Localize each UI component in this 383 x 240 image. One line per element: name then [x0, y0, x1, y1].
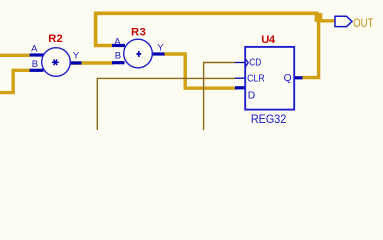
svg-text:U4: U4: [261, 34, 276, 46]
svg-text:CLR: CLR: [247, 73, 265, 84]
svg-text:A: A: [31, 43, 38, 54]
svg-text:D: D: [248, 90, 255, 101]
svg-text:R3: R3: [131, 26, 146, 38]
svg-text:B: B: [32, 59, 38, 70]
svg-text:Y: Y: [73, 50, 80, 61]
svg-text:R2: R2: [48, 33, 63, 45]
junction square: [315, 13, 323, 22]
wire vertical from junction down to U4.Q: [302, 13, 319, 77]
thin wire CD from bottom edge: [204, 63, 235, 132]
register U4 body: [245, 47, 294, 110]
pin stub R2.B: [30, 69, 44, 72]
adder R3 plus: [136, 51, 141, 57]
pin line U4.CD: [235, 62, 245, 64]
svg-text:OUT: OUT: [353, 16, 374, 30]
svg-text:Q: Q: [284, 73, 292, 84]
multiplier R2 asterisk: [52, 60, 59, 66]
svg-text:REG32: REG32: [251, 112, 286, 126]
wire R3.Y to U4.D: [164, 54, 236, 88]
svg-text:Y: Y: [157, 43, 164, 54]
multiplier R2 circle: [42, 48, 71, 77]
pin line U4.CLR: [235, 77, 245, 79]
pin stub U4.Q: [295, 76, 303, 79]
pin stub R3.Y: [152, 52, 165, 55]
adder R3 circle: [124, 39, 153, 68]
pin stub R3.B: [112, 61, 125, 64]
svg-text:CD: CD: [249, 58, 261, 69]
pin stub R2.Y: [70, 61, 82, 64]
svg-text:A: A: [114, 36, 121, 47]
thin wire CLR from bottom edge: [97, 78, 235, 131]
pin stub R2.A: [30, 53, 44, 56]
wire input A to R2 from left edge: [0, 54, 30, 57]
wire feedback top net into R3.A: [96, 13, 319, 45]
svg-text:B: B: [115, 50, 121, 61]
clock chevron on CD pin: [246, 59, 248, 66]
pin stub R3.A: [112, 44, 125, 47]
port OUT pentagon: [335, 16, 352, 26]
wire stub junction to OUT port: [319, 19, 335, 22]
pin stub U4.D: [235, 86, 245, 89]
wire input B to R2 from left edge: [0, 70, 30, 92]
wire R2.Y to R3.B: [70, 61, 113, 64]
